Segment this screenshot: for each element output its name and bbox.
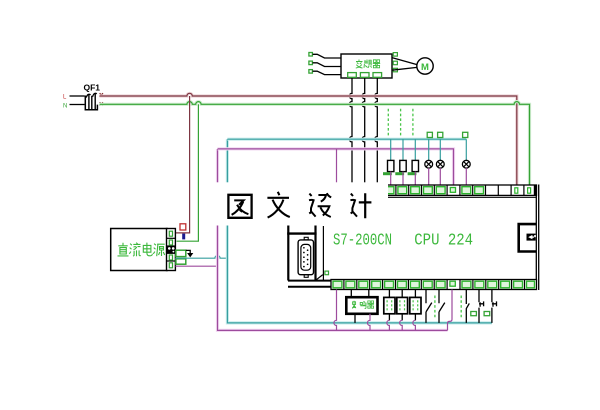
fuse F1: [388, 160, 394, 171]
wire 0V magenta from DC: [175, 265, 217, 267]
wire buzzer feeds: [351, 290, 369, 298]
converter bottom terminals: [348, 73, 382, 78]
label QF1: [84, 83, 101, 93]
buzzer box: [346, 297, 377, 314]
breaker QF1: [85, 93, 103, 110]
PLC left module: [287, 225, 323, 280]
wire module diagonal: [316, 275, 323, 281]
riser cyan: [227, 139, 492, 323]
fuse terminal bars: [383, 172, 416, 175]
wire magenta output1: [334, 290, 337, 331]
wire L drop to DC supply: [176, 96, 190, 233]
wire motor phase U down: [349, 78, 352, 186]
DC output lug 2: [176, 259, 186, 264]
lamp terminal squares: [427, 132, 468, 137]
fuse F3: [412, 160, 418, 171]
output contacts: [426, 290, 497, 323]
svg-text:S7-200CN: S7-200CN: [333, 232, 392, 251]
wire converter input phase 1: [313, 54, 341, 58]
PLC right edge: [536, 185, 538, 291]
svg-text:QF1: QF1: [84, 83, 101, 93]
bus cyan lamp row: [227, 138, 466, 141]
wire N drop to DC supply: [177, 104, 199, 241]
riser magenta: [218, 149, 448, 330]
watermark band: [207, 182, 388, 225]
green dashed links: [388, 109, 413, 137]
label M: [421, 62, 429, 73]
DC terminal indicator: [167, 246, 176, 253]
wire magenta output to strip: [448, 290, 453, 331]
wire converter input phase 3: [313, 71, 341, 74]
bus magenta control row: [218, 149, 454, 186]
expansion port box: [519, 224, 537, 251]
wire buzzer to magenta bus: [367, 314, 370, 331]
DC output lug 1: [176, 250, 186, 256]
terminal squares converter input: [309, 53, 313, 74]
converter right terminals: [393, 53, 397, 72]
label CPU 224: [414, 232, 473, 251]
wire motor phase W down: [375, 78, 378, 186]
svg-text:M: M: [421, 62, 429, 73]
DC terminal strip: [167, 229, 176, 271]
connector red: [180, 224, 186, 230]
pin blue: [182, 234, 185, 240]
wire N main: [100, 102, 530, 186]
svg-text:CPU 224: CPU 224: [414, 232, 473, 251]
wire magenta fuse outputs: [391, 172, 416, 186]
wire L stub: [70, 95, 85, 97]
wire motor phase V down: [362, 78, 365, 186]
wire buzzer to cyan bus: [354, 314, 356, 323]
fuse F2: [400, 160, 406, 171]
wire magenta lamp outputs: [429, 168, 467, 186]
wire cyan fuse drops: [391, 139, 416, 160]
label DC power supply: [118, 243, 165, 257]
DC power supply box: [111, 229, 167, 271]
wire converter to motor: [392, 58, 417, 71]
watermark text 图文设计: [228, 192, 371, 218]
DB9 programming port: [298, 237, 313, 277]
relay coils KM1 KM2 KM3: [384, 290, 421, 331]
wire L main: [100, 93, 517, 186]
lamp HL3: [462, 160, 470, 168]
PLC top terminal strip: [383, 185, 537, 197]
contact link dashes: [435, 296, 461, 318]
module green tick: [325, 271, 329, 275]
ground arrow: [186, 250, 194, 257]
svg-text:N: N: [63, 104, 67, 110]
contact green squares: [471, 312, 490, 316]
label S7-200CN: [333, 232, 392, 251]
label N: [63, 104, 67, 110]
label L: [63, 94, 67, 100]
wire converter input phase 2: [313, 63, 341, 67]
PLC bottom terminal strip: [288, 280, 537, 290]
motor M1: [417, 58, 433, 74]
wire 24V cyan from DC: [175, 256, 227, 259]
svg-text:L: L: [63, 94, 67, 100]
wire magenta PLC input: [336, 149, 338, 186]
label converter: [356, 60, 380, 69]
lamp HL2: [436, 160, 444, 168]
label buzzer: [352, 301, 374, 309]
lamp HL1: [425, 160, 433, 168]
frequency converter box: [341, 54, 392, 78]
wire cyan lamp drops: [429, 139, 467, 160]
wire N stub: [70, 104, 85, 106]
